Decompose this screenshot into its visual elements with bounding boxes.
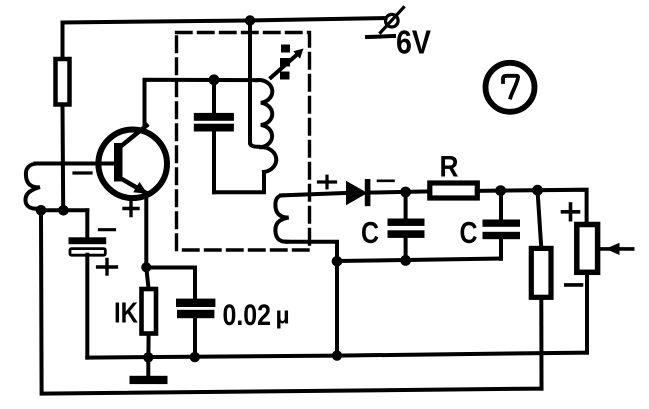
resistor R2 1K [142, 267, 157, 357]
node secondary bottom junction [332, 256, 343, 267]
capacitor C5 (second filter C) [483, 191, 521, 259]
wire bottom feedback rail [41, 210, 542, 393]
wire emitter [144, 193, 148, 267]
svg-text:6V: 6V [396, 24, 431, 61]
adjustable core arrow [271, 45, 304, 80]
wire collector to tank [145, 80, 258, 124]
resistor R4 (load to feedback rail) [531, 190, 551, 388]
svg-text:0.02: 0.02 [223, 299, 272, 332]
label 1K [114, 298, 138, 330]
output arrow [597, 243, 633, 255]
wire supply tap drop [245, 15, 259, 147]
label - (diode cathode) [378, 180, 394, 183]
wire secondary bottom [287, 242, 337, 356]
resistor R1 (top-left bias resistor) [56, 23, 70, 211]
diode D1 [346, 179, 370, 206]
label + (emitter polarity) [124, 202, 138, 216]
inductor L2 (tank coil, tapped) [214, 80, 276, 192]
label C (first) [361, 215, 379, 250]
capacitor C3 (tank) [194, 80, 234, 193]
wire emitter to C2 [146, 268, 195, 299]
svg-text:R: R [440, 151, 459, 184]
label 6V [396, 24, 431, 61]
label + (rectifier polarity) [319, 176, 336, 188]
label - (output polarity) [566, 283, 582, 287]
figure number 7 [486, 63, 535, 112]
wire diode to R [369, 191, 430, 192]
label - (C1 polarity) [100, 228, 115, 231]
wire R to output [477, 190, 587, 225]
resistor R3 (filter R) [430, 183, 478, 198]
label R [440, 151, 459, 184]
node filter output junctions [495, 185, 543, 196]
inductor L3 (secondary coil) [275, 195, 288, 241]
transistor Q1 [98, 126, 167, 199]
power terminal -6V [367, 8, 404, 38]
capacitor C4 (first filter C) [388, 192, 425, 266]
inductor L1 (left coil) [25, 164, 40, 209]
node tank top [209, 74, 220, 85]
ground [130, 357, 168, 384]
dashed oscillator module box [177, 33, 310, 251]
label + (C1 polarity) [98, 260, 117, 275]
node emitter junction [141, 262, 151, 272]
label + (output polarity) [563, 204, 579, 220]
capacitor C2 0.02u [176, 299, 215, 358]
label - (base polarity) [74, 171, 91, 174]
wire filter bottom rail [337, 259, 501, 262]
wire top supply rail [63, 18, 386, 23]
node ground rail junctions [143, 350, 342, 362]
svg-text:C: C [361, 215, 379, 250]
node filter input [400, 187, 411, 198]
label 0.02u [223, 299, 290, 332]
svg-text:IK: IK [114, 298, 138, 330]
wire ground rail [87, 353, 587, 358]
label C (second) [460, 215, 478, 250]
svg-text:µ: µ [276, 303, 290, 330]
node A (coil/resistor junction) [36, 205, 88, 216]
resistor R5 (output load) [577, 225, 598, 353]
svg-text:C: C [460, 215, 478, 250]
capacitor C1 (electrolytic) [69, 210, 107, 357]
wire secondary top to diode [281, 193, 347, 195]
wire base [36, 162, 115, 166]
